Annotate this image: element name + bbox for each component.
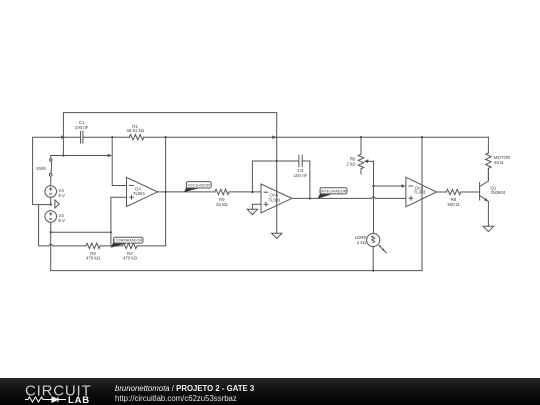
wire R8 to Q1 base [461, 191, 480, 193]
svg-text:45 Ω: 45 Ω [494, 160, 504, 165]
wire R6 wiper down to LDR [373, 161, 375, 233]
footer line 1 [115, 384, 254, 393]
wire R9 to OA3 inverting input [229, 191, 261, 193]
wire R3 to R2 net [53, 245, 166, 247]
svg-text:INTEGRADOR: INTEGRADOR [321, 188, 347, 193]
footer bar [0, 378, 540, 405]
net flag OSCILADOR [184, 182, 211, 193]
wire arrow at outer rail junction [61, 135, 65, 139]
svg-text:26 kΩ: 26 kΩ [216, 202, 228, 207]
ground below OA3 [272, 233, 282, 238]
resistor R9 [215, 189, 229, 207]
wire noninverting vertical x110.9 [111, 197, 127, 246]
svg-text:TL081: TL081 [414, 190, 427, 195]
capacitor C3 [294, 155, 308, 178]
wire outer left rail [33, 137, 61, 204]
svg-text:600 Ω: 600 Ω [447, 202, 460, 207]
svg-text:45.51 kΩ: 45.51 kΩ [126, 128, 144, 133]
resistor R2 [123, 243, 138, 261]
svg-text:470 kΩ: 470 kΩ [123, 256, 138, 261]
wire arrow into feedback node [108, 154, 113, 158]
op-amp OA2 [406, 177, 437, 207]
resistor R3 [86, 243, 101, 261]
wire left drop to R3 [39, 205, 49, 246]
svg-text:9 V: 9 V [58, 218, 65, 223]
transistor Q1 [480, 168, 506, 226]
net flag INTEGRADOR [318, 188, 347, 199]
wire LDR to bottom rail [372, 247, 374, 271]
switch SW9 [36, 159, 52, 186]
wire OA output [158, 191, 215, 193]
wire midpoint to noninverting loop [51, 231, 111, 233]
voltage source V4 [45, 186, 65, 205]
wire bottom rail [51, 270, 422, 272]
wire OA2 output to R8 [436, 191, 446, 193]
svg-text:470 kΩ: 470 kΩ [86, 256, 101, 261]
node flag arrow at source midpoint [55, 200, 59, 208]
net flag COMPARADOR [111, 237, 143, 248]
svg-text:TL081: TL081 [269, 197, 282, 202]
wire arrow into OA2 inverting input [401, 184, 406, 187]
svg-text:OSCILADOR: OSCILADOR [187, 182, 210, 187]
svg-text:9 V: 9 V [58, 193, 65, 198]
svg-text:TL081: TL081 [133, 191, 146, 196]
svg-text:SW9: SW9 [36, 166, 46, 171]
ground at OA3 noninverting input [247, 204, 261, 214]
resistor R8 [446, 189, 460, 207]
photoresistor LDR9 [355, 233, 387, 252]
wire divider tap to OA2 inverting input [374, 185, 402, 187]
wire source net y155 [51, 156, 108, 159]
svg-text:LAB: LAB [68, 395, 90, 405]
svg-text:COMPARADOR: COMPARADOR [114, 238, 142, 243]
voltage source V3 [45, 211, 65, 271]
svg-text:100 nF: 100 nF [75, 125, 89, 130]
wire hop over V3 wire [49, 244, 53, 246]
potentiometer R6 [346, 137, 373, 174]
op-amp OA3 [261, 184, 292, 213]
wire feedback vertical x165 [165, 137, 167, 246]
capacitor C1 [75, 120, 89, 143]
ground at Q1 emitter [483, 226, 493, 231]
wire main horizontal net y137 [63, 136, 488, 138]
op-amp OA [127, 177, 158, 206]
wire OA3 output to OA2 noninverting input with hop [292, 197, 406, 199]
resistor R1 [126, 124, 144, 140]
wire right riser x422 [421, 137, 423, 270]
wire long vertical x276 top rail to ground [276, 113, 278, 234]
footer line 2 [115, 394, 237, 403]
svg-text:100 nF: 100 nF [294, 173, 308, 178]
wire OA3 feedback with capacitor C3 [252, 161, 310, 198]
svg-text:2 kΩ: 2 kΩ [357, 240, 367, 245]
wire arrow at x276 crossing [272, 135, 277, 139]
svg-text:2N3904: 2N3904 [491, 190, 506, 195]
CircuitLab logo [0, 378, 100, 405]
svg-text:2 kΩ: 2 kΩ [346, 162, 356, 167]
wire top rail [63, 113, 276, 156]
junction dots [50, 136, 424, 272]
wire R1 node to inverting input [112, 137, 126, 185]
motor MOTOR (resistive load) [486, 137, 510, 180]
